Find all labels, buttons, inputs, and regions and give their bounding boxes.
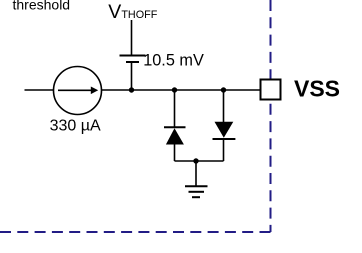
node junction dot left diode	[172, 87, 177, 92]
wire battery to node	[131, 62, 133, 91]
diode D2 cathode bar	[213, 138, 236, 140]
wire to diode D2	[223, 90, 225, 122]
diode D1 triangle	[166, 128, 184, 144]
wire to ground	[195, 161, 197, 186]
diode D2 triangle	[215, 122, 234, 138]
node junction dot right diode	[221, 87, 226, 92]
wire VTHOFF to battery	[131, 20, 133, 56]
wire diode D1 to bottom node	[174, 145, 176, 162]
wire diode D2 to bottom node	[223, 139, 225, 161]
wire circle to VSS pin	[102, 89, 260, 91]
diode D1 cathode bar	[164, 126, 186, 128]
wire to diode D1	[174, 90, 176, 127]
current source I1	[54, 67, 102, 115]
svg-text:10.5 mV: 10.5 mV	[143, 52, 204, 70]
svg-text:330 µA: 330 µA	[50, 118, 101, 135]
dashed box right edge	[270, 0, 272, 232]
ground symbol	[185, 185, 208, 187]
pin VSS terminal square	[261, 80, 281, 100]
wire left lead	[25, 89, 55, 91]
dashed box bottom edge	[0, 231, 272, 233]
current source arrow	[58, 89, 92, 91]
bottom node junction dot	[193, 158, 198, 163]
battery V1 plus plate	[120, 55, 146, 57]
node junction dot battery	[129, 87, 134, 92]
svg-text:VSS: VSS	[294, 76, 340, 102]
battery V1 minus plate	[126, 61, 139, 63]
bottom wire between diodes	[175, 160, 224, 162]
svg-text:threshold: threshold	[13, 0, 71, 12]
